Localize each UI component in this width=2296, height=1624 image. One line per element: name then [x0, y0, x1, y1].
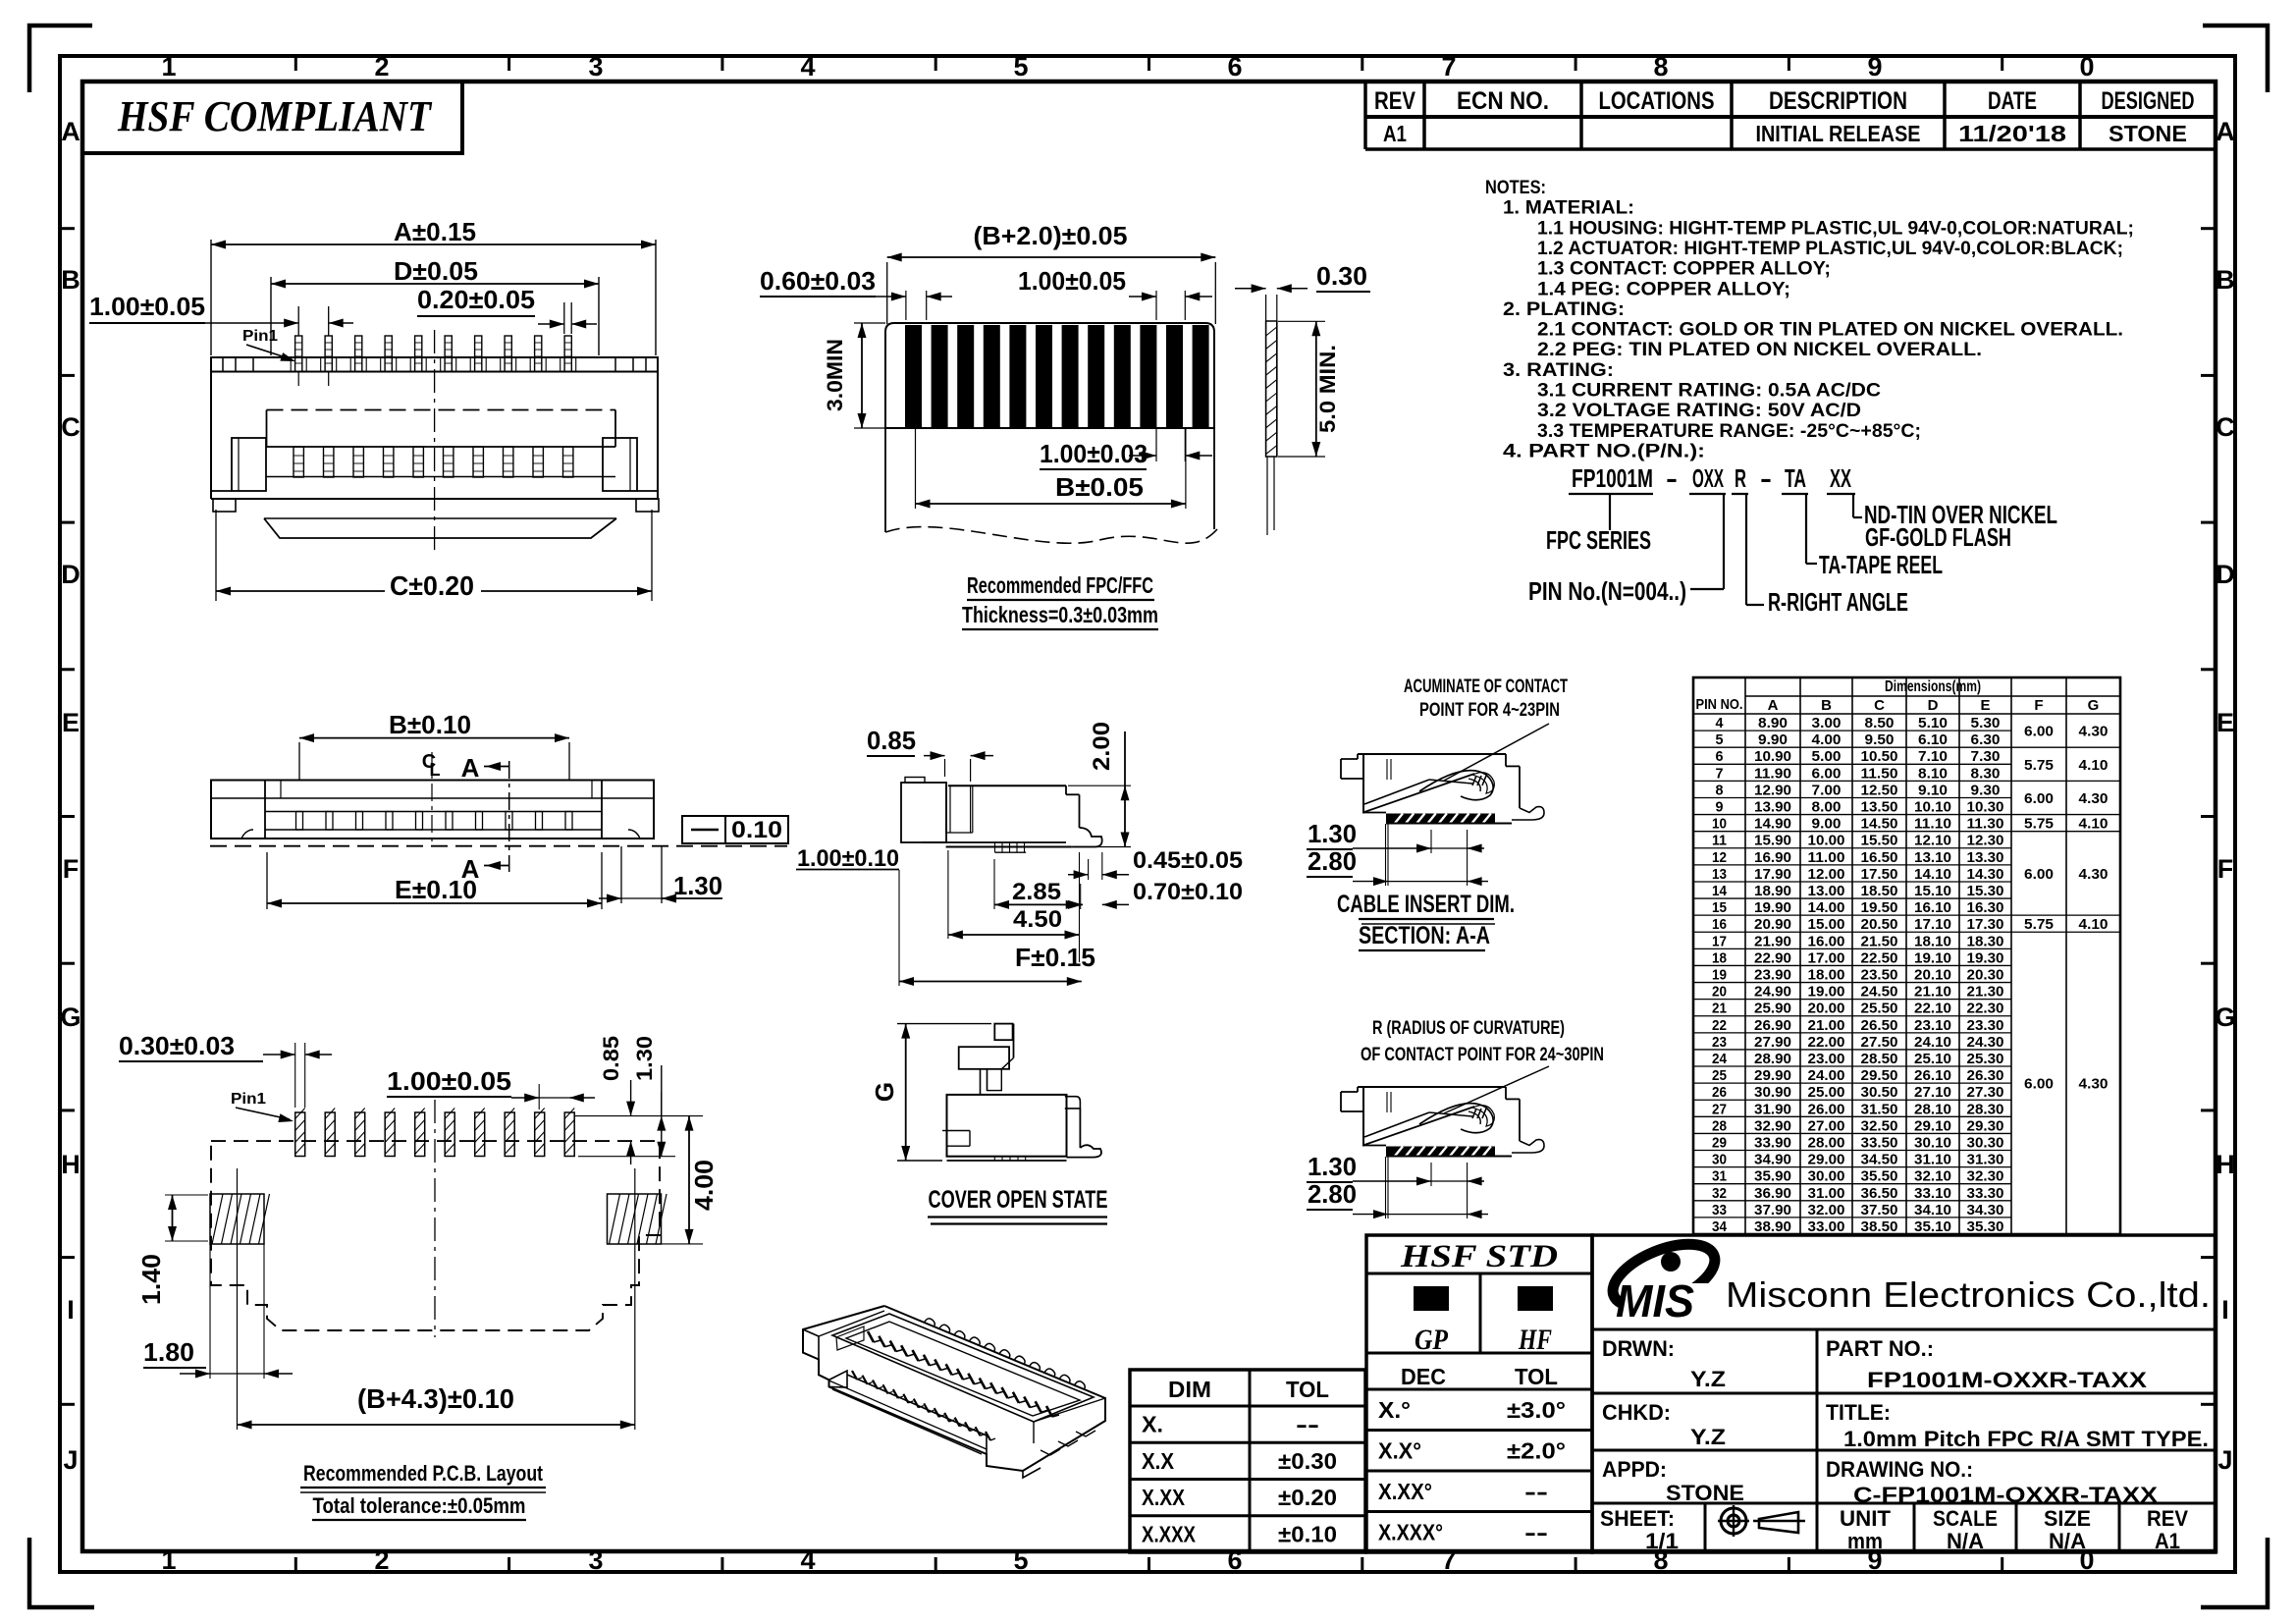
svg-text:10.30: 10.30 [1967, 799, 2004, 816]
svg-text:28: 28 [1712, 1117, 1727, 1134]
svg-text:DESIGNED: DESIGNED [2102, 87, 2195, 115]
svg-text:I: I [67, 1295, 75, 1325]
svg-text:28.30: 28.30 [1967, 1101, 2004, 1117]
svg-text:7: 7 [1441, 52, 1456, 81]
svg-text:11.10: 11.10 [1914, 816, 1951, 833]
svg-text:19.50: 19.50 [1861, 899, 1898, 916]
svg-text:25.30: 25.30 [1967, 1051, 2004, 1067]
svg-text:OF CONTACT POINT FOR 24~30: OF CONTACT POINT FOR 24~30PIN [1361, 1045, 1604, 1065]
svg-text:STONE: STONE [2109, 121, 2187, 146]
svg-text:TOL: TOL [1515, 1364, 1558, 1389]
svg-text:20.30: 20.30 [1967, 967, 2004, 984]
svg-text:15.90: 15.90 [1754, 833, 1791, 849]
svg-text:1.1 HOUSING: HIGHT-TEMP PLA: 1.1 HOUSING: HIGHT-TEMP PLASTIC,UL 94V-0… [1537, 218, 2134, 239]
svg-text:±0.30: ±0.30 [1278, 1448, 1337, 1474]
svg-text:H: H [2216, 1150, 2235, 1179]
svg-text:19.30: 19.30 [1967, 949, 2004, 966]
svg-text:33.90: 33.90 [1754, 1134, 1791, 1151]
svg-text:23.00: 23.00 [1808, 1051, 1845, 1067]
svg-text:C: C [2216, 412, 2235, 442]
svg-text:1.80: 1.80 [143, 1337, 194, 1367]
svg-text:32.90: 32.90 [1754, 1117, 1791, 1134]
svg-text:±2.0°: ±2.0° [1507, 1437, 1566, 1463]
svg-text:0.85: 0.85 [867, 726, 916, 755]
svg-text:0.45±0.05: 0.45±0.05 [1133, 847, 1243, 874]
svg-text:R (RADIUS OF CURVATURE): R (RADIUS OF CURVATURE) [1372, 1018, 1565, 1039]
svg-text:J: J [63, 1445, 78, 1475]
svg-text:7.10: 7.10 [1918, 748, 1948, 765]
svg-text:4.50: 4.50 [1013, 906, 1062, 933]
svg-text:±0.10: ±0.10 [1278, 1521, 1337, 1546]
svg-text:12.30: 12.30 [1967, 833, 2004, 849]
svg-text:±0.20: ±0.20 [1278, 1485, 1337, 1510]
svg-text:30.00: 30.00 [1808, 1168, 1845, 1185]
svg-text:25: 25 [1712, 1067, 1727, 1084]
svg-text:10.90: 10.90 [1754, 748, 1791, 765]
svg-text:6.10: 6.10 [1918, 731, 1948, 748]
svg-text:C: C [1874, 697, 1885, 714]
svg-text:5: 5 [1716, 731, 1724, 748]
svg-text:TA: TA [1785, 463, 1806, 493]
svg-text:1: 1 [161, 52, 176, 81]
svg-text:B±0.05: B±0.05 [1055, 472, 1144, 502]
svg-text:X.XXX: X.XXX [1142, 1521, 1197, 1546]
svg-text:11.90: 11.90 [1754, 765, 1791, 782]
svg-text:35.90: 35.90 [1754, 1168, 1791, 1185]
svg-text:15.00: 15.00 [1808, 916, 1845, 933]
svg-text:15.50: 15.50 [1861, 833, 1898, 849]
svg-text:N/A: N/A [2049, 1529, 2086, 1553]
svg-text:21.30: 21.30 [1967, 984, 2004, 1001]
svg-text:20.90: 20.90 [1754, 916, 1791, 933]
svg-text:14.10: 14.10 [1914, 866, 1951, 883]
svg-text:13.30: 13.30 [1967, 849, 2004, 866]
svg-text:2.1 CONTACT: GOLD OR TIN: 2.1 CONTACT: GOLD OR TIN PLATED ON NICKE… [1537, 320, 2123, 341]
svg-text:B: B [61, 265, 80, 295]
svg-text:DRWN:: DRWN: [1602, 1336, 1675, 1361]
svg-text:38.90: 38.90 [1754, 1218, 1791, 1235]
svg-text:9: 9 [1716, 799, 1724, 816]
svg-text:29.00: 29.00 [1808, 1152, 1845, 1168]
svg-text:18.00: 18.00 [1808, 967, 1845, 984]
svg-text:9.30: 9.30 [1971, 782, 2001, 798]
svg-text:COVER OPEN STATE: COVER OPEN STATE [929, 1186, 1108, 1214]
svg-text:34: 34 [1712, 1218, 1728, 1235]
svg-text:4. PART NO.(P/N.):: 4. PART NO.(P/N.): [1503, 441, 1705, 461]
svg-text:20: 20 [1712, 984, 1727, 1001]
svg-text:24.90: 24.90 [1754, 984, 1791, 1001]
svg-text:0.30: 0.30 [1316, 261, 1367, 291]
svg-text:3.3 TEMPERATURE RANGE: -25°: 3.3 TEMPERATURE RANGE: -25°C~+85°C; [1537, 421, 1921, 442]
svg-text:Total tolerance:±0.05mm: Total tolerance:±0.05mm [313, 1493, 526, 1518]
svg-text:1. MATERIAL:: 1. MATERIAL: [1503, 198, 1634, 219]
svg-text:12.90: 12.90 [1754, 782, 1791, 798]
svg-text:26.10: 26.10 [1914, 1067, 1951, 1084]
svg-text:2.2 PEG: TIN PLATED ON NI: 2.2 PEG: TIN PLATED ON NICKEL OVERALL. [1537, 340, 1982, 360]
svg-text:23.30: 23.30 [1967, 1017, 2004, 1034]
svg-text:4.10: 4.10 [2079, 816, 2109, 833]
svg-text:6: 6 [1227, 1545, 1242, 1575]
svg-text:(B+2.0)±0.05: (B+2.0)±0.05 [974, 221, 1128, 250]
svg-text:mm: mm [1847, 1529, 1883, 1553]
svg-text:18: 18 [1712, 949, 1727, 966]
svg-text:PIN NO.: PIN NO. [1696, 696, 1743, 713]
svg-text:32.30: 32.30 [1967, 1168, 2004, 1185]
svg-text:X.°: X.° [1378, 1397, 1411, 1423]
svg-text:6.00: 6.00 [2024, 790, 2054, 807]
svg-text:23: 23 [1712, 1034, 1727, 1051]
svg-text:5.30: 5.30 [1971, 715, 2001, 731]
svg-text:28.00: 28.00 [1808, 1134, 1845, 1151]
svg-text:29.50: 29.50 [1861, 1067, 1898, 1084]
svg-text:5: 5 [1013, 1545, 1028, 1575]
svg-text:30: 30 [1712, 1152, 1727, 1168]
svg-text:12: 12 [1712, 849, 1727, 866]
svg-text:1.0mm Pitch FPC R/A SMT T: 1.0mm Pitch FPC R/A SMT TYPE. [1843, 1427, 2209, 1451]
svg-text:0.70±0.10: 0.70±0.10 [1133, 879, 1243, 905]
svg-text:4.30: 4.30 [2079, 724, 2109, 740]
svg-text:10.50: 10.50 [1861, 748, 1898, 765]
svg-text:22.10: 22.10 [1914, 1001, 1951, 1017]
svg-text:DATE: DATE [1988, 87, 2037, 115]
svg-text:6.00: 6.00 [2024, 866, 2054, 883]
svg-text:33.10: 33.10 [1914, 1185, 1951, 1202]
svg-text:30.30: 30.30 [1967, 1134, 2004, 1151]
svg-text:9.10: 9.10 [1918, 782, 1948, 798]
svg-text:19.00: 19.00 [1808, 984, 1845, 1001]
svg-text:5.75: 5.75 [2024, 816, 2054, 833]
svg-text:TITLE:: TITLE: [1826, 1400, 1891, 1425]
svg-text:1.00±0.05: 1.00±0.05 [387, 1066, 511, 1096]
svg-text:29.30: 29.30 [1967, 1117, 2004, 1134]
svg-text:34.10: 34.10 [1914, 1202, 1951, 1218]
svg-text:5.00: 5.00 [1812, 748, 1842, 765]
svg-text:-: - [1666, 463, 1678, 493]
svg-text:-: - [1760, 463, 1772, 493]
svg-text:2.80: 2.80 [1308, 1179, 1357, 1209]
svg-text:Y.Z: Y.Z [1690, 1367, 1726, 1391]
svg-text:G: G [60, 1002, 80, 1032]
svg-text:33.50: 33.50 [1861, 1134, 1898, 1151]
svg-text:8.00: 8.00 [1812, 799, 1842, 816]
svg-text:11.50: 11.50 [1861, 765, 1898, 782]
svg-text:2.80: 2.80 [1308, 846, 1357, 876]
svg-text:1.00±0.05: 1.00±0.05 [1018, 266, 1126, 296]
svg-text:24: 24 [1712, 1051, 1728, 1067]
svg-text:30.10: 30.10 [1914, 1134, 1951, 1151]
svg-text:D: D [61, 560, 80, 589]
svg-text:A: A [61, 117, 80, 146]
svg-text:5.10: 5.10 [1918, 715, 1948, 731]
svg-text:21.00: 21.00 [1808, 1017, 1845, 1034]
svg-text:PART NO.:: PART NO.: [1826, 1336, 1934, 1361]
svg-text:4: 4 [1716, 715, 1725, 731]
svg-text:2: 2 [374, 52, 389, 81]
svg-text:14.00: 14.00 [1808, 899, 1845, 916]
svg-text:34.50: 34.50 [1861, 1152, 1898, 1168]
svg-text:0.85: 0.85 [599, 1036, 623, 1081]
svg-text:12.50: 12.50 [1861, 782, 1898, 798]
svg-text:37.50: 37.50 [1861, 1202, 1898, 1218]
svg-text:2.85: 2.85 [1012, 879, 1061, 905]
svg-text:38.50: 38.50 [1861, 1218, 1898, 1235]
svg-text:12.00: 12.00 [1808, 866, 1845, 883]
svg-text:9.50: 9.50 [1865, 731, 1895, 748]
svg-text:0.20±0.05: 0.20±0.05 [417, 285, 535, 314]
svg-text:3.0MIN: 3.0MIN [823, 339, 847, 411]
svg-text:36.90: 36.90 [1754, 1185, 1791, 1202]
svg-text:1.30: 1.30 [673, 871, 722, 900]
svg-text:4.00: 4.00 [689, 1160, 719, 1211]
svg-text:16: 16 [1712, 916, 1727, 933]
svg-text:0.60±0.03: 0.60±0.03 [760, 266, 876, 296]
svg-text:26.90: 26.90 [1754, 1017, 1791, 1034]
svg-text:OXX: OXX [1692, 463, 1724, 493]
svg-text:SHEET:: SHEET: [1600, 1506, 1675, 1531]
svg-text:28.90: 28.90 [1754, 1051, 1791, 1067]
svg-text:26.50: 26.50 [1861, 1017, 1898, 1034]
svg-text:TOL: TOL [1286, 1377, 1329, 1402]
svg-text:8.90: 8.90 [1758, 715, 1788, 731]
svg-text:7.00: 7.00 [1812, 782, 1842, 798]
svg-text:17.90: 17.90 [1754, 866, 1791, 883]
svg-text:18.90: 18.90 [1754, 883, 1791, 899]
svg-text:H: H [61, 1150, 80, 1179]
svg-text:1.2 ACTUATOR: HIGHT-TEMP PL: 1.2 ACTUATOR: HIGHT-TEMP PLASTIC,UL 94V-… [1537, 239, 2123, 259]
svg-text:F: F [2034, 697, 2043, 714]
svg-text:20.10: 20.10 [1914, 967, 1951, 984]
svg-text:1.3 CONTACT: COPPER ALLOY;: 1.3 CONTACT: COPPER ALLOY; [1537, 259, 1831, 280]
svg-text:15: 15 [1712, 899, 1727, 916]
svg-text:13.10: 13.10 [1914, 849, 1951, 866]
svg-text:Recommended FPC/FFC: Recommended FPC/FFC [967, 572, 1153, 598]
svg-text:3.2 VOLTAGE RATING: 50V AC: 3.2 VOLTAGE RATING: 50V AC/D [1537, 401, 1861, 421]
svg-text:--: -- [1296, 1412, 1319, 1437]
svg-text:24.10: 24.10 [1914, 1034, 1951, 1051]
svg-text:R-RIGHT ANGLE: R-RIGHT ANGLE [1768, 587, 1908, 617]
svg-text:5.75: 5.75 [2024, 916, 2054, 933]
svg-text:HSF COMPLIANT: HSF COMPLIANT [117, 92, 433, 140]
svg-text:A±0.15: A±0.15 [394, 217, 476, 246]
svg-text:16.90: 16.90 [1754, 849, 1791, 866]
svg-text:2: 2 [374, 1545, 389, 1575]
svg-text:APPD:: APPD: [1602, 1457, 1667, 1482]
svg-text:11: 11 [1712, 833, 1727, 849]
svg-text:15.30: 15.30 [1967, 883, 2004, 899]
svg-text:PIN No.(N=004..): PIN No.(N=004..) [1528, 576, 1686, 606]
svg-text:L: L [430, 760, 441, 780]
svg-text:26.30: 26.30 [1967, 1067, 2004, 1084]
svg-text:7.30: 7.30 [1971, 748, 2001, 765]
svg-text:22.00: 22.00 [1808, 1034, 1845, 1051]
svg-text:1.00±0.03: 1.00±0.03 [1040, 439, 1148, 468]
svg-text:DEC: DEC [1401, 1364, 1446, 1389]
svg-text:SIZE: SIZE [2044, 1506, 2091, 1531]
svg-text:7: 7 [1441, 1545, 1456, 1575]
svg-text:1.4 PEG: COPPER ALLOY;: 1.4 PEG: COPPER ALLOY; [1537, 279, 1790, 299]
svg-text:18.30: 18.30 [1967, 933, 2004, 949]
svg-text:5: 5 [1013, 52, 1028, 81]
svg-text:22.90: 22.90 [1754, 949, 1791, 966]
svg-text:N/A: N/A [1947, 1529, 1984, 1553]
svg-text:14.50: 14.50 [1861, 816, 1898, 833]
svg-text:SECTION: A-A: SECTION: A-A [1359, 922, 1490, 949]
svg-text:13.00: 13.00 [1808, 883, 1845, 899]
svg-text:16.50: 16.50 [1861, 849, 1898, 866]
svg-text:LOCATIONS: LOCATIONS [1599, 87, 1715, 115]
svg-text:FPC SERIES: FPC SERIES [1546, 525, 1651, 555]
svg-text:16.10: 16.10 [1914, 899, 1951, 916]
svg-text:HSF STD: HSF STD [1400, 1239, 1558, 1274]
svg-text:NOTES:: NOTES: [1485, 178, 1546, 198]
svg-text:GF-GOLD FLASH: GF-GOLD FLASH [1865, 522, 2011, 552]
svg-text:G: G [870, 1082, 899, 1102]
svg-text:32.00: 32.00 [1808, 1202, 1845, 1218]
svg-text:3: 3 [588, 1545, 603, 1575]
svg-text:6.30: 6.30 [1971, 731, 2001, 748]
svg-text:4.10: 4.10 [2079, 757, 2109, 774]
svg-text:24.00: 24.00 [1808, 1067, 1845, 1084]
svg-text:HF: HF [1518, 1324, 1552, 1356]
svg-text:10: 10 [1712, 816, 1727, 833]
svg-text:24.30: 24.30 [1967, 1034, 2004, 1051]
svg-text:26: 26 [1712, 1084, 1727, 1101]
svg-text:25.10: 25.10 [1914, 1051, 1951, 1067]
svg-text:6: 6 [1227, 52, 1242, 81]
svg-text:F±0.15: F±0.15 [1015, 943, 1095, 972]
svg-text:GP: GP [1415, 1324, 1449, 1356]
svg-text:SCALE: SCALE [1933, 1506, 1998, 1531]
svg-text:22: 22 [1712, 1017, 1727, 1034]
svg-text:B: B [2216, 265, 2235, 295]
svg-text:4.00: 4.00 [1812, 731, 1842, 748]
svg-text:36.50: 36.50 [1861, 1185, 1898, 1202]
svg-text:31.90: 31.90 [1754, 1101, 1791, 1117]
svg-text:1.00±0.10: 1.00±0.10 [797, 845, 899, 872]
svg-text:17.50: 17.50 [1861, 866, 1898, 883]
svg-text:6.00: 6.00 [1812, 765, 1842, 782]
svg-text:2.00: 2.00 [1089, 722, 1115, 771]
svg-text:27.10: 27.10 [1914, 1084, 1951, 1101]
svg-text:28.50: 28.50 [1861, 1051, 1898, 1067]
svg-text:DRAWING NO.:: DRAWING NO.: [1826, 1457, 1973, 1482]
svg-text:17.10: 17.10 [1914, 916, 1951, 933]
svg-text:11.00: 11.00 [1808, 849, 1845, 866]
svg-text:20.00: 20.00 [1808, 1001, 1845, 1017]
svg-text:14: 14 [1712, 883, 1728, 899]
svg-text:18.10: 18.10 [1914, 933, 1951, 949]
svg-text:C±0.20: C±0.20 [390, 570, 474, 601]
svg-text:26.00: 26.00 [1808, 1101, 1845, 1117]
svg-text:G: G [2215, 1002, 2235, 1032]
svg-text:C-FP1001M-OXXR-TAXX: C-FP1001M-OXXR-TAXX [1853, 1483, 2158, 1507]
svg-text:0.30±0.03: 0.30±0.03 [119, 1031, 235, 1060]
svg-text:ECN NO.: ECN NO. [1457, 87, 1549, 115]
svg-text:2. PLATING:: 2. PLATING: [1503, 299, 1625, 320]
svg-text:Dimensions(mm): Dimensions(mm) [1885, 678, 1981, 695]
svg-text:D±0.05: D±0.05 [394, 256, 478, 286]
svg-text:E: E [2216, 708, 2234, 737]
svg-text:4.30: 4.30 [2079, 790, 2109, 807]
svg-text:6.00: 6.00 [2024, 1076, 2054, 1093]
svg-text:6.00: 6.00 [2024, 724, 2054, 740]
svg-text:33: 33 [1712, 1202, 1727, 1218]
svg-text:REV: REV [1374, 87, 1415, 115]
svg-text:24.50: 24.50 [1861, 984, 1898, 1001]
svg-text:37.90: 37.90 [1754, 1202, 1791, 1218]
svg-text:1.30: 1.30 [1308, 1152, 1357, 1181]
svg-text:11.30: 11.30 [1967, 816, 2004, 833]
svg-text:X.X: X.X [1142, 1448, 1175, 1474]
svg-text:8: 8 [1716, 782, 1724, 798]
svg-text:4.30: 4.30 [2079, 866, 2109, 883]
svg-text:12.10: 12.10 [1914, 833, 1951, 849]
svg-text:35.30: 35.30 [1967, 1218, 2004, 1235]
svg-text:21.50: 21.50 [1861, 933, 1898, 949]
svg-text:3.1 CURRENT RATING: 0.5A A: 3.1 CURRENT RATING: 0.5A AC/DC [1537, 381, 1881, 402]
svg-text:FP1001M-OXXR-TAXX: FP1001M-OXXR-TAXX [1867, 1368, 2147, 1392]
svg-text:8.30: 8.30 [1971, 765, 2001, 782]
svg-text:F: F [2217, 854, 2234, 884]
svg-text:35.10: 35.10 [1914, 1218, 1951, 1235]
svg-text:3.00: 3.00 [1812, 715, 1842, 731]
svg-text:A: A [2216, 117, 2235, 146]
svg-text:1: 1 [161, 1545, 176, 1575]
svg-text:(B+4.3)±0.10: (B+4.3)±0.10 [357, 1383, 514, 1414]
svg-text:C: C [61, 412, 80, 442]
svg-text:19: 19 [1712, 967, 1727, 984]
svg-text:32.50: 32.50 [1861, 1117, 1898, 1134]
svg-text:8.50: 8.50 [1865, 715, 1895, 731]
svg-text:19.90: 19.90 [1754, 899, 1791, 916]
svg-text:27.50: 27.50 [1861, 1034, 1898, 1051]
svg-text:34.30: 34.30 [1967, 1202, 2004, 1218]
svg-text:CABLE INSERT DIM.: CABLE INSERT DIM. [1337, 891, 1515, 918]
svg-text:31.30: 31.30 [1967, 1152, 2004, 1168]
svg-text:E: E [62, 708, 80, 737]
svg-text:22.50: 22.50 [1861, 949, 1898, 966]
svg-text:G: G [2088, 697, 2100, 714]
svg-text:4: 4 [800, 1545, 815, 1575]
svg-text:8: 8 [1653, 52, 1668, 81]
svg-text:0.10: 0.10 [731, 817, 782, 843]
svg-text:A: A [1768, 697, 1779, 714]
svg-text:13: 13 [1712, 866, 1727, 883]
svg-text:Y.Z: Y.Z [1690, 1425, 1726, 1449]
svg-text:13.90: 13.90 [1754, 799, 1791, 816]
svg-text:Pin1: Pin1 [242, 328, 278, 345]
svg-text:21.10: 21.10 [1914, 984, 1951, 1001]
svg-text:--: -- [1524, 1519, 1548, 1544]
svg-text:32: 32 [1712, 1185, 1727, 1202]
svg-text:13.50: 13.50 [1861, 799, 1898, 816]
svg-text:INITIAL RELEASE: INITIAL RELEASE [1756, 121, 1921, 146]
svg-text:DESCRIPTION: DESCRIPTION [1769, 87, 1907, 115]
svg-text:STONE: STONE [1666, 1481, 1744, 1505]
svg-text:--: -- [1524, 1479, 1548, 1504]
svg-text:25.00: 25.00 [1808, 1084, 1845, 1101]
svg-text:27.00: 27.00 [1808, 1117, 1845, 1134]
svg-text:21.90: 21.90 [1754, 933, 1791, 949]
svg-text:17: 17 [1712, 933, 1727, 949]
svg-text:31.00: 31.00 [1808, 1185, 1845, 1202]
svg-text:8.10: 8.10 [1918, 765, 1948, 782]
svg-text:3. RATING:: 3. RATING: [1503, 360, 1614, 381]
svg-text:1.00±0.05: 1.00±0.05 [89, 292, 205, 321]
svg-text:1.40: 1.40 [136, 1254, 166, 1305]
svg-text:30.90: 30.90 [1754, 1084, 1791, 1101]
svg-text:15.10: 15.10 [1914, 883, 1951, 899]
